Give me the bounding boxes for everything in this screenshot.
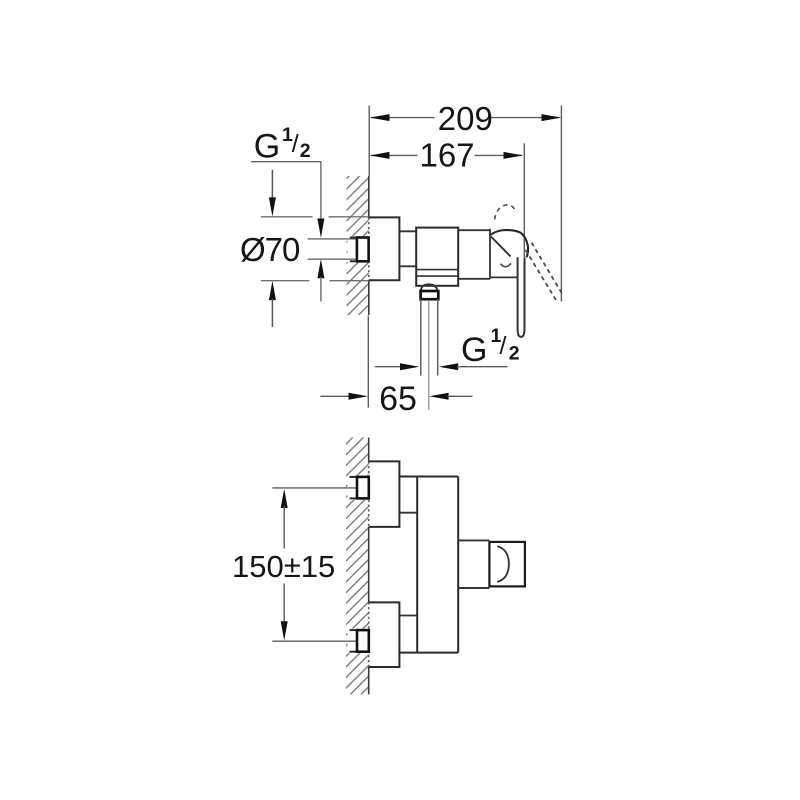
wall face line (lower view) xyxy=(368,438,370,695)
svg-text:2: 2 xyxy=(509,343,520,365)
dim 209 extension line right xyxy=(560,106,562,302)
wall hatching (top view) xyxy=(347,176,369,315)
dia 70 arrows + leader shafts xyxy=(269,170,276,327)
handle dome small arc mark xyxy=(501,263,512,266)
escutcheon bottom (lower view) xyxy=(369,602,400,667)
G 1/2 leader (to supply pipe) with arrows xyxy=(317,162,324,302)
lever (rest position, pointing down) xyxy=(518,257,525,337)
svg-text:Ø70: Ø70 xyxy=(240,231,300,268)
supply line bottom (150 ext line) xyxy=(272,640,357,642)
handle knob (lower view) xyxy=(489,542,525,587)
dia 70 extension line bottom xyxy=(261,280,369,282)
wall hatching (lower view) xyxy=(346,438,369,695)
dia 70 extension line top xyxy=(261,216,369,218)
wall hole edges (top view) xyxy=(350,238,357,262)
outlet nut xyxy=(421,291,439,299)
svg-text:G: G xyxy=(254,127,280,165)
shower outlet dome (top view) xyxy=(421,284,438,291)
supply stub fitting (top view) xyxy=(357,238,369,262)
step piece lines (lower view) xyxy=(399,513,417,616)
wall hole (top view supply) xyxy=(348,236,369,262)
body internal lines xyxy=(416,270,458,277)
escutcheon (top view) xyxy=(369,217,400,280)
svg-text:/: / xyxy=(292,130,299,158)
wall hole edges (lower view) xyxy=(350,477,357,652)
wall face line (top view) xyxy=(368,176,370,315)
dim 167 extension line right xyxy=(523,143,525,257)
dim 209 line + arrows xyxy=(370,114,561,121)
cartridge housing (top view) xyxy=(458,229,490,279)
supply stub fitting bottom (lower view) xyxy=(357,630,369,652)
supply line top (150 ext line) xyxy=(272,487,357,489)
main body slab (lower view) xyxy=(399,477,458,653)
main body block (top view) xyxy=(416,228,458,286)
dashed lever (swung position) xyxy=(526,243,564,303)
svg-text:2: 2 xyxy=(300,140,311,162)
handle dome (top view) xyxy=(491,230,529,257)
svg-text:/: / xyxy=(500,332,507,360)
handle dome bottom line xyxy=(490,276,518,278)
supply pipe (top view) xyxy=(308,239,357,259)
wall hole bottom (lower view) xyxy=(348,629,369,653)
shower hose pipe xyxy=(421,299,438,375)
dim 167 line + arrows xyxy=(370,152,523,159)
dim 65 line + arrows xyxy=(320,393,472,400)
G 1/2 hose dimension line + arrows xyxy=(375,363,508,370)
connector piece (top view) xyxy=(399,231,416,266)
wall hole top (lower view) xyxy=(348,476,369,500)
svg-text:167: 167 xyxy=(419,137,474,174)
dim 150+-15 line + arrows xyxy=(281,489,288,641)
svg-text:65: 65 xyxy=(379,380,417,418)
escutcheon top (lower view) xyxy=(369,461,400,527)
svg-text:G: G xyxy=(461,331,487,369)
svg-text:209: 209 xyxy=(438,100,493,137)
supply stub fitting top (lower view) xyxy=(357,477,369,499)
label G 1/2 shelf line xyxy=(251,161,321,163)
svg-text:150±15: 150±15 xyxy=(232,549,335,584)
hose centerline xyxy=(428,300,430,410)
knob face arc xyxy=(497,546,509,582)
dim 65 wall extension line xyxy=(367,316,369,408)
dim 209 extension line left xyxy=(368,106,370,177)
handle shaft (lower view) xyxy=(458,540,489,588)
handle dome inner edge xyxy=(491,237,511,257)
dashed arc (handle swung position, top) xyxy=(495,205,515,220)
